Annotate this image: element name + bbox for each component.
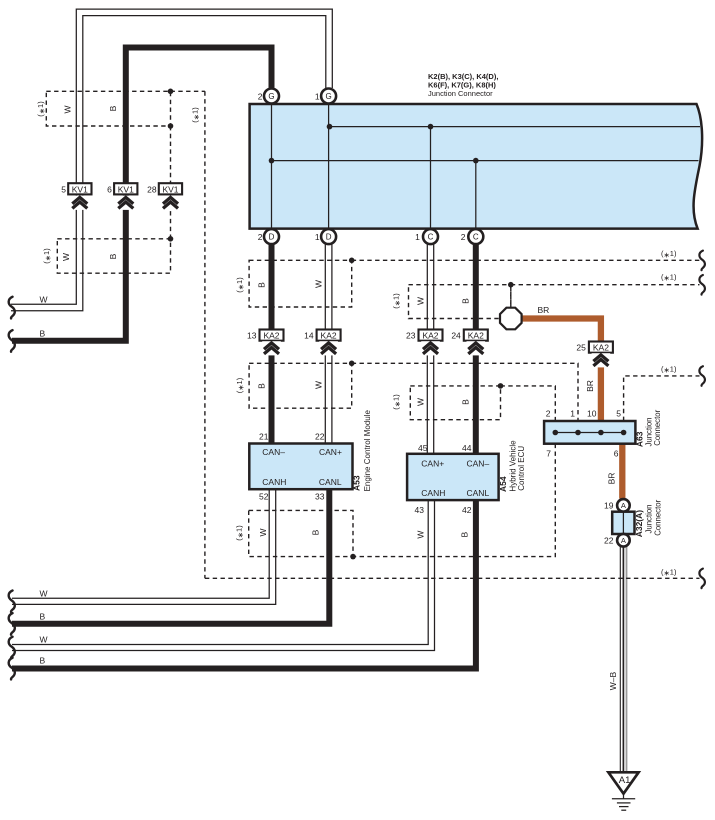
svg-text:23: 23: [406, 331, 416, 341]
svg-text:KV1: KV1: [118, 184, 134, 194]
internal junction dot: [428, 124, 434, 130]
wire B from 6 KV1 down-left to squiggle: [12, 196, 126, 341]
svg-text:B: B: [40, 611, 46, 621]
svg-text:(∗1): (∗1): [235, 377, 245, 393]
svg-text:KA2: KA2: [321, 331, 337, 341]
octagon joint: [500, 308, 522, 330]
pin circle 2(D): [264, 229, 279, 244]
svg-text:42: 42: [462, 505, 472, 515]
chevron 23 KA2: [421, 341, 440, 355]
svg-text:W: W: [416, 398, 426, 406]
svg-text:6: 6: [107, 184, 112, 194]
pin circle 1(D): [321, 229, 336, 244]
svg-text:14: 14: [304, 331, 314, 341]
dashed box (*1) around W/B below KV1: [57, 239, 170, 273]
svg-text:W: W: [416, 297, 426, 305]
svg-text:BR: BR: [607, 473, 617, 485]
svg-text:B: B: [40, 656, 46, 666]
svg-text:W: W: [63, 105, 73, 113]
squiggle right bottom line: [699, 569, 705, 589]
connector 13 KA2: [260, 330, 284, 341]
wire W from A53 pin 52 down-left to squiggle: [12, 489, 269, 598]
svg-text:(∗1): (∗1): [42, 248, 52, 264]
long dashed line (*1) to right squiggle: [511, 284, 700, 286]
dashed wire from box to 28 KV1: [170, 126, 172, 183]
svg-text:KV1: KV1: [162, 184, 178, 194]
ground A1: [608, 772, 638, 793]
long dashed line (*1) to right squiggle: [352, 259, 700, 261]
dashed box (*1) around W/B above KV1: [46, 91, 170, 126]
ECU A54 Hybrid Vehicle Control ECU: [407, 454, 499, 500]
svg-text:(∗1): (∗1): [191, 107, 201, 123]
dashed line to A63 pin 2: [501, 386, 556, 421]
junction connector A63: [544, 421, 635, 444]
squiggle right line A: [699, 251, 705, 271]
svg-text:W: W: [314, 381, 324, 389]
connector 14 KA2: [317, 330, 341, 341]
chevron 25 KA2: [592, 353, 611, 367]
svg-text:KV1: KV1: [72, 184, 88, 194]
dashed box (*1) around W/B below 23,24 KA2: [410, 386, 500, 420]
pin circle 1(C): [423, 229, 438, 244]
chevron 24 KA2: [467, 341, 486, 355]
wire W from A54 pin 43 down-left to squiggle: [12, 500, 428, 644]
squiggle W2 bottom: [9, 637, 15, 659]
svg-text:43: 43: [415, 505, 425, 515]
wire W from 5 KV1 down-left to squiggle: [11, 196, 76, 305]
long vertical dashed (*1) line: [204, 91, 206, 578]
svg-text:5: 5: [616, 409, 621, 419]
pin circle 19(A): [617, 499, 630, 512]
svg-text:(∗1): (∗1): [235, 525, 245, 541]
svg-text:BR: BR: [585, 380, 595, 392]
A63 dots: [553, 430, 559, 436]
connector 6 KV1: [114, 183, 137, 194]
svg-text:BR: BR: [538, 305, 550, 315]
svg-text:A63: A63: [634, 431, 644, 447]
node dot top-right corner: [168, 236, 174, 242]
dashed box (*1) around W/B above 23,24 KA2: [409, 285, 511, 319]
svg-text:1: 1: [315, 92, 320, 102]
svg-text:Connector: Connector: [653, 409, 662, 445]
svg-text:G: G: [325, 92, 331, 101]
squiggle B top-left: [9, 330, 15, 352]
svg-text:28: 28: [147, 184, 157, 194]
svg-text:2: 2: [258, 92, 263, 102]
internal junction dot: [269, 158, 275, 164]
wire B from 6 KV1 up over to junction pin 2(G): [126, 48, 272, 184]
chevron 6 KV1: [117, 196, 136, 210]
svg-text:KA2: KA2: [593, 343, 609, 353]
svg-text:(∗1): (∗1): [661, 272, 677, 282]
svg-text:C: C: [473, 233, 479, 242]
ECU A53 Engine Control Module: [249, 444, 352, 490]
svg-text:D: D: [269, 233, 275, 242]
internal bus line 2: [272, 160, 699, 162]
chevron 14 KA2: [319, 341, 338, 355]
chevron 28 KV1: [161, 196, 180, 210]
junction connector K2-K8 box: [250, 104, 703, 229]
dashed stub from dot to octagon: [510, 287, 512, 308]
svg-text:W: W: [314, 280, 324, 288]
connector 5 KV1: [68, 183, 91, 194]
node dot: [508, 282, 514, 288]
svg-text:(∗1): (∗1): [235, 277, 245, 293]
svg-text:B: B: [108, 105, 118, 111]
svg-text:KA2: KA2: [422, 331, 438, 341]
squiggle B2 bottom: [9, 658, 15, 680]
dashed line A63 pin 5 to right squiggle: [624, 376, 700, 421]
svg-text:A: A: [621, 536, 626, 545]
svg-text:KA2: KA2: [263, 331, 279, 341]
svg-text:CANL: CANL: [467, 488, 490, 498]
internal vertical wire to pin 1C: [430, 127, 432, 229]
svg-text:CANH: CANH: [262, 477, 286, 487]
svg-text:21: 21: [259, 432, 269, 442]
svg-text:A54: A54: [498, 476, 508, 492]
svg-text:CANL: CANL: [319, 477, 342, 487]
dashed link to long (*1) line: [171, 90, 205, 92]
svg-text:B: B: [461, 399, 471, 405]
svg-text:A1: A1: [619, 775, 631, 786]
svg-text:(∗1): (∗1): [36, 101, 46, 117]
svg-text:B: B: [311, 529, 321, 535]
svg-text:2: 2: [461, 232, 466, 242]
svg-text:(∗1): (∗1): [661, 364, 677, 374]
wire W-B from A32 pin 22 down to ground A1: [619, 547, 621, 773]
node dot: [349, 361, 355, 367]
svg-text:(∗1): (∗1): [392, 293, 402, 309]
svg-text:W: W: [40, 588, 48, 598]
svg-text:22: 22: [604, 536, 614, 546]
dashed line A63 pin 7 to box corner: [353, 444, 555, 557]
svg-text:52: 52: [259, 492, 269, 502]
long bottom dashed line (*1) to right squiggle: [205, 577, 700, 579]
wire BR from octagon to 25 KA2: [522, 319, 601, 342]
svg-text:44: 44: [462, 443, 472, 453]
internal vertical wire pin 2G-2D: [271, 104, 273, 229]
connector 28 KV1: [159, 183, 182, 194]
svg-text:KA2: KA2: [468, 331, 484, 341]
wire W junction 1(C) down to A54 pin 45: [426, 245, 428, 454]
svg-text:22: 22: [315, 432, 325, 442]
svg-text:W–B: W–B: [608, 671, 618, 690]
svg-text:Engine Control Module: Engine Control Module: [363, 409, 372, 491]
squiggle W top-left: [9, 297, 15, 319]
dashed box (*1) around B/W above 13,14 KA2: [249, 260, 352, 307]
svg-text:A32(A): A32(A): [634, 510, 644, 538]
svg-text:(∗1): (∗1): [392, 394, 402, 410]
connector 24 KA2: [464, 330, 488, 341]
svg-text:D: D: [326, 233, 332, 242]
svg-text:5: 5: [61, 184, 66, 194]
svg-text:10: 10: [587, 409, 597, 419]
svg-text:G: G: [268, 92, 274, 101]
squiggle W1 bottom: [9, 590, 15, 612]
svg-text:2: 2: [546, 409, 551, 419]
svg-text:W: W: [258, 528, 268, 536]
svg-text:1: 1: [415, 232, 420, 242]
svg-text:19: 19: [604, 501, 614, 511]
junction connector A32(A): [612, 512, 634, 534]
squiggle right pin5 line: [699, 366, 705, 386]
internal vertical wire pin 1G-1D: [328, 104, 330, 229]
svg-text:B: B: [40, 328, 46, 338]
node dot: [350, 554, 356, 560]
svg-text:B: B: [257, 383, 267, 389]
chevron 13 KA2: [262, 341, 281, 355]
svg-text:1: 1: [570, 409, 575, 419]
internal junction dot: [327, 124, 333, 130]
dashed wire below 28 KV1 chevron to lower box: [170, 196, 172, 239]
svg-text:7: 7: [546, 449, 551, 459]
svg-text:Junction Connector: Junction Connector: [428, 89, 493, 98]
svg-text:CAN+: CAN+: [421, 458, 444, 468]
svg-text:CAN–: CAN–: [262, 447, 285, 457]
internal junction dot: [473, 158, 479, 164]
dashed line to A63 pin 1: [352, 363, 578, 421]
svg-text:W: W: [40, 294, 48, 304]
svg-text:(∗1): (∗1): [661, 249, 677, 259]
wire B junction 2(D) down to A53 pin 21: [269, 245, 275, 444]
svg-text:45: 45: [418, 443, 428, 453]
dashed box (*1) around B/W below 13,14 KA2: [249, 363, 352, 408]
svg-text:CAN–: CAN–: [467, 458, 490, 468]
pin circle 22(A): [617, 534, 630, 547]
svg-text:24: 24: [451, 331, 461, 341]
svg-text:A53: A53: [352, 475, 362, 491]
svg-text:2: 2: [258, 232, 263, 242]
svg-text:(∗1): (∗1): [661, 567, 677, 577]
pin circle 2(C): [468, 229, 483, 244]
svg-text:B: B: [108, 253, 118, 259]
svg-text:Control ECU: Control ECU: [517, 446, 526, 491]
svg-text:13: 13: [247, 331, 257, 341]
node dot bottom-right of box: [168, 123, 174, 129]
svg-text:B: B: [461, 298, 471, 304]
svg-text:Junction: Junction: [645, 504, 654, 533]
dashed box (*1) around W/B below A53: [249, 510, 353, 556]
svg-text:W: W: [416, 531, 426, 539]
internal bus line 1: [329, 126, 700, 128]
node dot top-right of box: [168, 89, 174, 95]
wire BR from A63 pin 6 down to A32 pin 19: [619, 444, 625, 499]
squiggle B1 bottom: [9, 613, 15, 635]
wire B junction 2(C) down to A54 pin 44: [473, 245, 479, 454]
svg-text:B: B: [257, 282, 267, 288]
internal vertical wire to pin 2C: [475, 161, 477, 229]
svg-text:1: 1: [315, 232, 320, 242]
svg-text:Connector: Connector: [653, 499, 662, 535]
svg-text:A: A: [621, 501, 626, 510]
connector 23 KA2: [419, 330, 443, 341]
A63 internal bus: [555, 432, 623, 434]
wire W junction 1(D) down to A53 pin 22: [324, 245, 326, 444]
svg-text:C: C: [428, 233, 434, 242]
pin circle 1(G): [321, 89, 336, 104]
svg-text:W: W: [40, 635, 48, 645]
svg-text:CAN+: CAN+: [319, 447, 342, 457]
svg-text:6: 6: [614, 449, 619, 459]
squiggle right line B: [699, 275, 705, 295]
wire B from A54 pin 42 down-left to squiggle: [12, 500, 476, 668]
svg-text:B: B: [460, 531, 470, 537]
wire B from A53 pin 33 down-left to squiggle: [12, 489, 329, 624]
svg-text:33: 33: [315, 492, 325, 502]
connector 25 KA2: [589, 342, 613, 353]
svg-text:W: W: [61, 253, 71, 261]
svg-text:25: 25: [576, 343, 586, 353]
wire BR from 25 KA2 chevron down to A63 pin 10: [598, 366, 604, 421]
svg-text:CANH: CANH: [421, 488, 445, 498]
wire W from 5 KV1 up over to junction pin 1(G): [76, 9, 332, 183]
node dot: [349, 258, 355, 264]
chevron 5 KV1: [71, 196, 90, 210]
node dot: [498, 383, 504, 389]
pin circle 2(G): [264, 89, 279, 104]
